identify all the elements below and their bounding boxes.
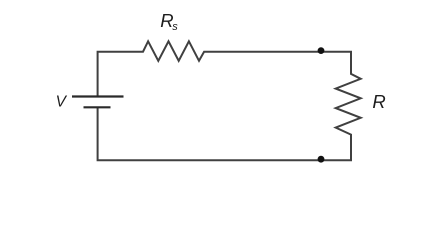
svg-text:R: R [372, 91, 385, 112]
svg-text:V: V [56, 94, 68, 111]
svg-text:s: s [172, 21, 178, 33]
